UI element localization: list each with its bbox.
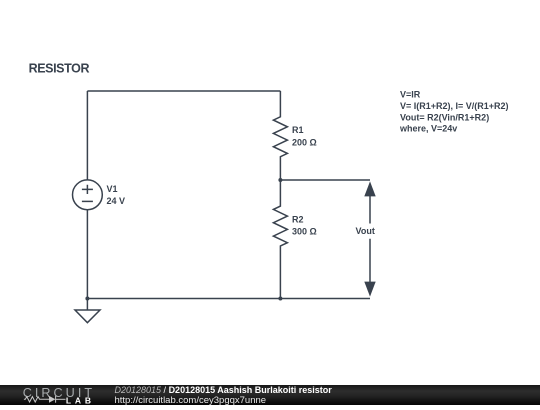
footer text line 1: [115, 385, 332, 395]
svg-text:200 Ω: 200 Ω: [292, 137, 317, 147]
svg-text:Vout: Vout: [356, 226, 375, 236]
V1 plus terminal mark: [82, 185, 93, 194]
footer url line: [115, 395, 267, 406]
annotation Vout arrow: [356, 181, 376, 296]
voltage source V1: [73, 180, 126, 210]
svg-text:RESISTOR: RESISTOR: [29, 62, 90, 76]
wire left vertical: [86, 91, 88, 180]
wire top horizontal: [87, 90, 280, 92]
wire V1 bottom to ground node: [86, 210, 88, 299]
ground triangle: [75, 310, 100, 323]
svg-text:Vout= R2(Vin/R1+R2): Vout= R2(Vin/R1+R2): [400, 112, 489, 122]
svg-text:LAB: LAB: [66, 395, 95, 405]
svg-text:V1: V1: [107, 184, 118, 194]
V1 minus terminal mark: [82, 200, 93, 202]
resistor R1: [273, 91, 316, 180]
wire bottom horizontal: [87, 298, 370, 300]
svg-text:R2: R2: [292, 215, 304, 225]
wire middle horizontal: [280, 179, 370, 181]
junction node at R2 bottom: [278, 297, 282, 301]
resistor R2: [273, 180, 316, 299]
Vout arrowhead up: [364, 181, 375, 196]
svg-text:where, V=24v: where, V=24v: [399, 123, 457, 133]
svg-text:V=IR: V=IR: [400, 90, 421, 100]
junction node at ground: [85, 297, 89, 301]
svg-text:R1: R1: [292, 125, 304, 135]
Vout arrow shaft: [369, 196, 371, 282]
svg-text:300 Ω: 300 Ω: [292, 226, 317, 236]
ground lead wire: [86, 299, 88, 311]
ground: [75, 299, 100, 323]
svg-text:V= I(R1+R2), I= V/(R1+R2): V= I(R1+R2), I= V/(R1+R2): [400, 101, 509, 111]
svg-text:24 V: 24 V: [107, 196, 126, 206]
CircuitLab logo: [18, 384, 118, 405]
annotation formulas: [399, 90, 509, 134]
junction node at R1/R2/Vout: [278, 178, 282, 182]
footer bar: [0, 385, 540, 405]
Vout arrowhead down: [364, 282, 375, 297]
